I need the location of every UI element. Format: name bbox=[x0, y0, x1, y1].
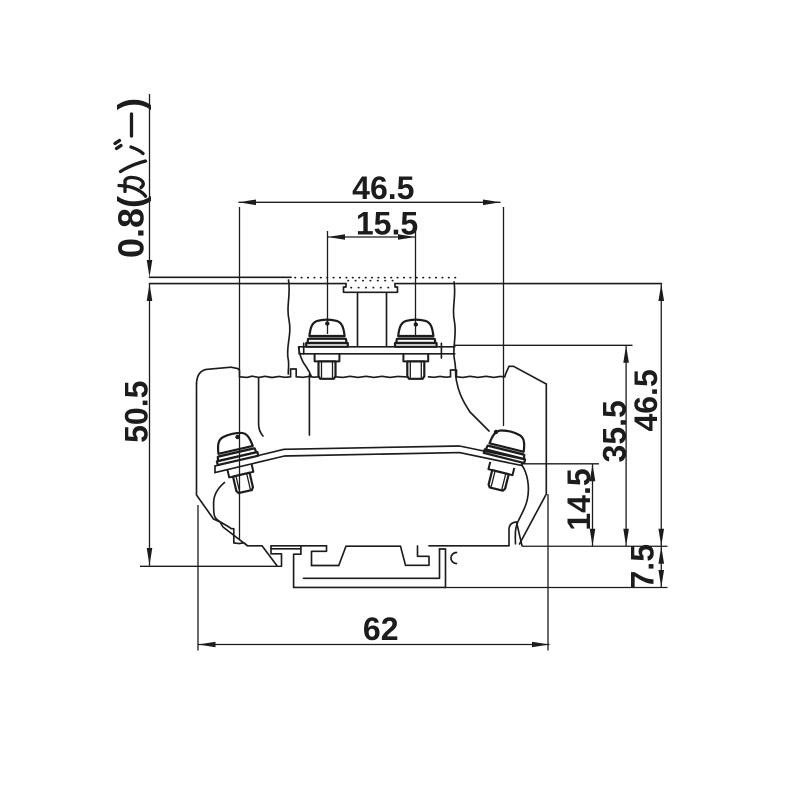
right shoulder outline bbox=[505, 366, 547, 384]
serrated section edge right bbox=[457, 376, 505, 377]
svg-text:46.5: 46.5 bbox=[352, 170, 414, 206]
svg-text:62: 62 bbox=[363, 611, 399, 647]
ext line rail bottom right bbox=[446, 587, 668, 589]
arrow 15.5 left bbox=[328, 234, 346, 240]
arrow 46.5top left bbox=[239, 200, 257, 206]
left pocket C bbox=[312, 546, 327, 566]
ext line 50.5 bottom bbox=[140, 565, 282, 567]
partition wall left line bbox=[357, 293, 359, 347]
right tab under break bbox=[451, 370, 457, 377]
svg-text:15.5: 15.5 bbox=[356, 205, 418, 241]
node dot top-right screw bbox=[414, 322, 418, 326]
svg-text:0.8(: 0.8( bbox=[111, 196, 152, 258]
right foot bump bbox=[509, 522, 522, 546]
top terminal bar bbox=[299, 347, 455, 354]
right wall top link bbox=[440, 548, 446, 550]
serrated section edge middle bbox=[336, 376, 407, 377]
clamp bar bottom edge bbox=[215, 453, 522, 473]
arrow 7.5 up bbox=[658, 546, 664, 564]
arrow 62 right bbox=[532, 642, 550, 648]
ext line 0.8 vertical bbox=[149, 94, 151, 270]
bar right lip bbox=[440, 343, 442, 358]
arrow 14.5 down bbox=[590, 529, 596, 547]
rail mesa bbox=[339, 546, 429, 566]
serrated section edge mid-right bbox=[429, 375, 451, 378]
arrow 62 left bbox=[198, 642, 216, 648]
arrowheads bbox=[147, 200, 664, 648]
node dot left screw head bbox=[235, 435, 239, 439]
svg-text:14.5: 14.5 bbox=[561, 468, 597, 530]
left channel wall step bbox=[294, 546, 301, 588]
left cavity wall line b bbox=[308, 375, 310, 436]
katakana ka bbox=[119, 177, 146, 196]
arrow 46.5top right bbox=[483, 200, 501, 206]
cover top line solid left bbox=[150, 276, 292, 278]
left hook bar bottom bbox=[271, 548, 301, 550]
break line wavy left bbox=[288, 280, 290, 374]
arrow 46.5right down bbox=[658, 529, 664, 547]
body bottom section edge bbox=[234, 543, 277, 566]
node dot right screw head bbox=[494, 430, 498, 434]
cover top line dotted bbox=[295, 277, 456, 279]
foot top line left hook bar bbox=[271, 545, 327, 547]
dim line 46.5 right bbox=[660, 284, 662, 547]
svg-text:7.5: 7.5 bbox=[624, 544, 660, 588]
cover bottom long line left bbox=[150, 283, 347, 285]
bar left lip bbox=[303, 343, 305, 354]
left cavity wall line a bbox=[259, 378, 263, 436]
katakana long vowel bbox=[130, 114, 133, 136]
cover bottom long line right bbox=[395, 283, 661, 285]
dim line 35.5 bbox=[625, 345, 627, 546]
left tab under break bbox=[291, 369, 297, 377]
ext line foot level right bbox=[522, 545, 668, 547]
upper cavity left wall bbox=[299, 347, 312, 377]
dim line 62 bbox=[198, 644, 550, 646]
ext line screw level right bbox=[521, 463, 599, 465]
dim line 46.5 top bbox=[239, 201, 501, 203]
break line wavy right bbox=[454, 282, 456, 377]
dim line 15.5 bbox=[328, 236, 416, 238]
serrated section edge mid-left bbox=[296, 375, 319, 378]
ext line 46.5top right bbox=[503, 207, 505, 426]
arrow 14.5 up bbox=[590, 464, 596, 482]
partition wall right line bbox=[386, 293, 388, 347]
screw top-left bbox=[306, 320, 348, 379]
channel bottom line bbox=[294, 586, 446, 588]
right arc hook bbox=[451, 553, 457, 564]
arrow 50.5 down bbox=[147, 548, 153, 566]
ext line 46.5top left / body feature bbox=[239, 207, 241, 540]
channel floor left bbox=[312, 565, 339, 567]
ext line bar level right bbox=[455, 344, 633, 346]
dim line 50.5 vertical bbox=[149, 284, 151, 566]
arrow 35.5 up bbox=[623, 345, 629, 363]
ext line 62 left bbox=[197, 505, 199, 651]
right inner S-curve wall bbox=[515, 465, 528, 544]
left outer wall bbox=[197, 384, 248, 546]
right outer wall bbox=[520, 384, 547, 544]
right inner wall diagonal to screw bbox=[456, 378, 489, 432]
svg-text:): ) bbox=[111, 98, 152, 110]
node dot top-left screw bbox=[325, 321, 329, 325]
left inner S-curve wall bbox=[214, 483, 234, 543]
notch stipple dots bbox=[348, 281, 396, 288]
screw lower-right (tilted) bbox=[476, 427, 531, 495]
dim line 7.5 bbox=[660, 546, 662, 587]
channel inner floor bbox=[304, 549, 440, 578]
svg-text:35.5: 35.5 bbox=[596, 400, 632, 462]
ext line 15.5 left bbox=[327, 231, 329, 334]
label 0.8 cover rotated bbox=[111, 98, 152, 258]
left hook step bbox=[271, 546, 282, 567]
svg-text:50.5: 50.5 bbox=[119, 381, 155, 443]
foot top line right bbox=[429, 545, 509, 547]
serrated section edge left bbox=[240, 376, 291, 377]
cover center notch bbox=[344, 284, 398, 293]
arrow 0.8/50.5 up bbox=[147, 284, 153, 301]
arrow 7.5 down bbox=[658, 570, 664, 588]
dim line 14.5 bbox=[592, 464, 594, 546]
ext line 62 right bbox=[547, 494, 549, 651]
left shoulder outline bbox=[197, 367, 240, 384]
right wall outer bbox=[445, 550, 447, 588]
clamp bar top edge bbox=[215, 446, 524, 466]
katakana ba bbox=[115, 141, 146, 172]
arrow 46.5right up bbox=[658, 284, 664, 301]
arrow 0.8 down bbox=[147, 260, 153, 277]
arrow 35.5 down bbox=[623, 529, 629, 547]
svg-text:46.5: 46.5 bbox=[628, 369, 664, 431]
ext line 15.5 right bbox=[415, 231, 417, 335]
clamp bar left end bbox=[214, 466, 216, 473]
arrow 15.5 right bbox=[398, 234, 416, 240]
screw top-right bbox=[395, 320, 437, 379]
screw lower-left (tilted) bbox=[212, 429, 266, 496]
